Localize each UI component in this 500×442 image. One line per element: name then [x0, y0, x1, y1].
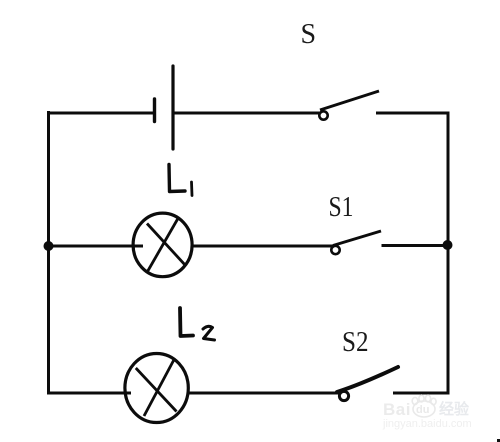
wire: top branch, left segment to battery: [47, 112, 153, 115]
corner artifact mark: [497, 439, 500, 442]
switch S2 pivot circle: [339, 391, 348, 400]
switch S lever arm: [320, 91, 379, 110]
label L1 (handwritten L): [169, 165, 185, 192]
wire: left vertical bus: [47, 111, 50, 394]
battery B1 negative plate (short): [153, 99, 156, 122]
lamp L2 circle: [125, 354, 188, 423]
switch S2 lever arm: [337, 367, 398, 392]
switch S1 lever arm: [333, 231, 381, 246]
junction node left: [44, 241, 54, 251]
svg-text:经验: 经验: [439, 400, 470, 418]
wire: top branch, right of switch S: [376, 112, 450, 115]
label L1 subscript 1: [190, 182, 193, 196]
junction node right: [443, 240, 453, 250]
wire: middle branch, right of switch S1: [382, 244, 450, 247]
watermark paw icon: [412, 395, 436, 417]
lamp L2 cross stroke (TL-BR): [136, 368, 177, 412]
lamp L1 cross stroke (TL-BR): [147, 224, 186, 267]
svg-text:du: du: [416, 404, 429, 416]
switch S1 pivot circle: [331, 246, 339, 254]
wire: bottom branch, left segment to lamp L2: [47, 392, 131, 395]
wire: right vertical bus: [447, 112, 450, 395]
wire: top branch, battery to switch S: [173, 112, 320, 115]
label L2 (handwritten L): [180, 308, 193, 336]
svg-text:Bai: Bai: [383, 400, 411, 419]
wire: bottom branch, right of switch S2: [393, 392, 450, 395]
lamp L2 cross stroke (TR-BL): [144, 360, 174, 416]
svg-text:S1: S1: [329, 192, 354, 223]
svg-text:jingyan.baidu.com: jingyan.baidu.com: [382, 418, 472, 430]
label L2 subscript 2: [203, 326, 215, 340]
svg-text:S2: S2: [342, 327, 369, 358]
battery B1 positive plate (long): [171, 66, 174, 149]
wire: middle branch, left segment to lamp L1: [47, 245, 143, 248]
svg-text:S: S: [301, 19, 317, 50]
lamp L1 circle: [133, 213, 192, 277]
switch S pivot circle: [319, 111, 327, 119]
lamp L1 cross stroke (TR-BL): [148, 218, 179, 272]
wire: bottom branch, lamp L2 to switch S2: [188, 392, 340, 395]
wire: middle branch, lamp L1 to switch S1: [191, 245, 333, 248]
